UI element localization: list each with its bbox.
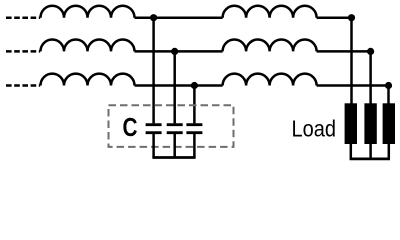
wire (capacitor C bottom lead) bbox=[193, 133, 196, 158]
wire (capacitor bank common bus) bbox=[152, 156, 195, 159]
wire (phase C to load node) bbox=[317, 84, 389, 87]
inductor (source-side, phase C) bbox=[41, 74, 135, 86]
wire (phase A to load node) bbox=[317, 16, 352, 19]
node (phase B load junction) bbox=[367, 48, 374, 55]
inductor (load-side, phase B) bbox=[223, 40, 317, 52]
wire (phase A middle segment) bbox=[135, 16, 223, 19]
wire (load drop, phase B) bbox=[369, 51, 372, 103]
wire (load B bottom lead) bbox=[369, 144, 372, 159]
wire (capacitor tap, phase B drop) bbox=[173, 51, 176, 123]
capacitor bank enclosure (dashed box) bbox=[109, 105, 234, 147]
load element (phase A, filled rectangle) bbox=[345, 103, 357, 144]
wire (phase B to load node) bbox=[317, 50, 371, 53]
svg-text:C: C bbox=[123, 112, 138, 142]
wire (capacitor tap, phase C drop) bbox=[193, 86, 196, 124]
inductor (source-side, phase A) bbox=[41, 6, 135, 18]
phase C lead-in (dashed wire, row 3) bbox=[6, 84, 40, 87]
wire (phase B middle segment) bbox=[135, 50, 223, 53]
phase B lead-in (dashed wire, row 2) bbox=[6, 50, 40, 53]
node (phase B capacitor tap junction) bbox=[171, 48, 178, 55]
capacitor (phase B): plates bbox=[167, 125, 183, 133]
node (phase C capacitor tap junction) bbox=[191, 82, 198, 89]
node (phase C load junction) bbox=[385, 82, 392, 89]
wire (capacitor tap, phase A drop) bbox=[152, 18, 155, 124]
inductor (load-side, phase A) bbox=[223, 6, 317, 18]
wire (load drop, phase A) bbox=[350, 18, 353, 104]
capacitor (phase A): plates bbox=[146, 125, 162, 133]
wire (load C bottom lead) bbox=[388, 144, 391, 159]
phase A lead-in (dashed wire, row 1) bbox=[6, 16, 40, 19]
capacitor (phase C): plates bbox=[186, 125, 202, 133]
load element (phase C, filled rectangle) bbox=[383, 103, 395, 144]
wire (capacitor B bottom lead) bbox=[173, 133, 176, 158]
node (phase A load junction) bbox=[348, 14, 355, 21]
inductor (load-side, phase C) bbox=[223, 74, 317, 86]
wire (load drop, phase C) bbox=[387, 86, 390, 104]
wire (load A bottom lead) bbox=[350, 144, 353, 159]
wire (load common bus) bbox=[350, 157, 390, 160]
load element (phase B, filled rectangle) bbox=[364, 103, 376, 144]
wire (phase C middle segment) bbox=[135, 84, 223, 87]
node (phase A capacitor tap junction) bbox=[150, 14, 157, 21]
inductor (source-side, phase B) bbox=[41, 40, 135, 52]
wire (capacitor A bottom lead) bbox=[152, 133, 155, 158]
svg-text:Load: Load bbox=[292, 116, 337, 142]
